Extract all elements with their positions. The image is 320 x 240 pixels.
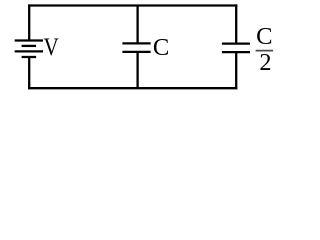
wire middle branch lower segment	[136, 52, 138, 88]
wire middle branch upper segment	[136, 6, 138, 44]
svg-text:C: C	[256, 23, 272, 50]
wire right rail lower segment	[235, 52, 237, 89]
wire left rail lower segment	[28, 57, 30, 89]
battery V	[15, 41, 43, 58]
capacitor C	[122, 43, 150, 52]
wire top rail	[28, 4, 237, 6]
capacitor C/2	[222, 44, 250, 53]
svg-text:C: C	[153, 34, 169, 61]
wire right rail upper segment	[235, 4, 237, 43]
wire bottom rail	[28, 87, 237, 89]
svg-text:2: 2	[259, 49, 271, 76]
svg-text:V: V	[44, 34, 59, 61]
label C/2 value	[256, 23, 274, 76]
wire left rail upper segment	[28, 4, 30, 40]
